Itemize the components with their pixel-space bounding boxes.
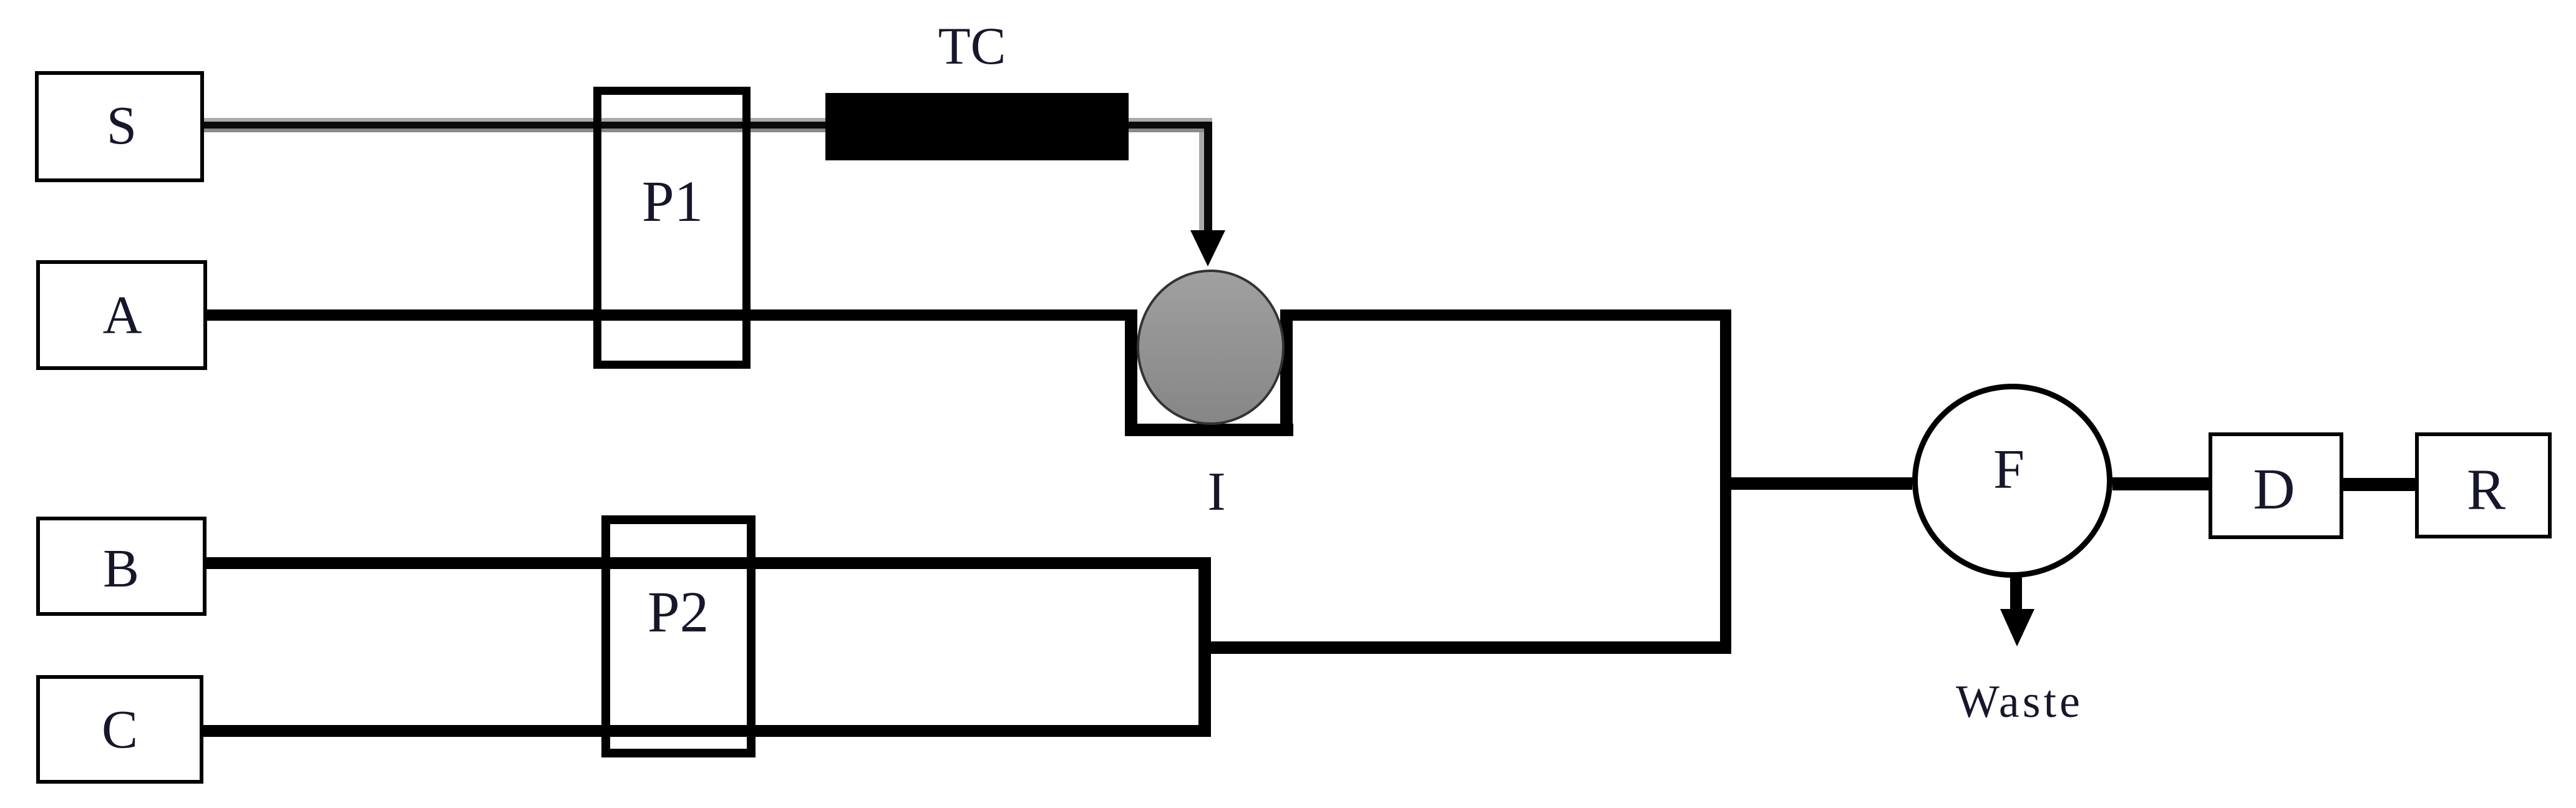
svg-text:F: F — [1993, 439, 2024, 500]
svg-text:R: R — [2467, 458, 2506, 522]
svg-text:TC: TC — [938, 17, 1006, 75]
svg-text:Waste: Waste — [1956, 676, 2083, 728]
wire F to D — [2112, 477, 2209, 490]
wire A to injector — [207, 309, 1137, 321]
wire right vertical (merge bar) — [1720, 309, 1731, 654]
injector port: right wall — [1280, 309, 1293, 436]
svg-text:S: S — [107, 95, 137, 155]
wire to flow cell F — [1731, 477, 1912, 490]
wire D to R — [2343, 478, 2415, 491]
box B (reagent B reservoir) — [38, 518, 205, 614]
svg-text:A: A — [103, 285, 142, 345]
wire B to junction — [207, 557, 1198, 569]
box S (sample reservoir) — [37, 73, 202, 180]
box D (detector) — [2210, 434, 2341, 537]
svg-text:D: D — [2253, 457, 2295, 522]
svg-text:C: C — [102, 699, 138, 759]
pump P1 — [598, 91, 747, 365]
merged wire B/C to right vertical — [1211, 641, 1731, 654]
box R (recorder) — [2417, 434, 2550, 537]
junction bar B/C — [1198, 557, 1211, 737]
wire S to TC (gray double line) — [204, 118, 825, 132]
waste arrowhead — [2000, 609, 2034, 646]
injector port: left wall — [1125, 309, 1137, 436]
wire injector to right corner — [1280, 309, 1731, 321]
flow cell F (circle) — [1915, 387, 2110, 575]
box C (reagent C reservoir) — [38, 677, 202, 782]
injector port: bottom — [1125, 424, 1293, 436]
svg-text:P1: P1 — [642, 170, 703, 234]
waste stem from F — [2010, 573, 2022, 611]
arrowhead into injector — [1190, 230, 1225, 266]
wire elbow down to injector — [1199, 122, 1212, 230]
svg-text:B: B — [103, 538, 139, 598]
box A (reagent A reservoir) — [38, 262, 205, 368]
svg-text:P2: P2 — [648, 580, 709, 645]
pump P2 — [606, 520, 751, 753]
svg-text:I: I — [1207, 462, 1225, 522]
injector valve I (gray circle) — [1138, 271, 1283, 522]
wire TC to elbow (gray double line) — [1129, 118, 1212, 132]
wire C to junction — [203, 725, 1198, 737]
heated coil TC (black bar) — [825, 17, 1129, 160]
